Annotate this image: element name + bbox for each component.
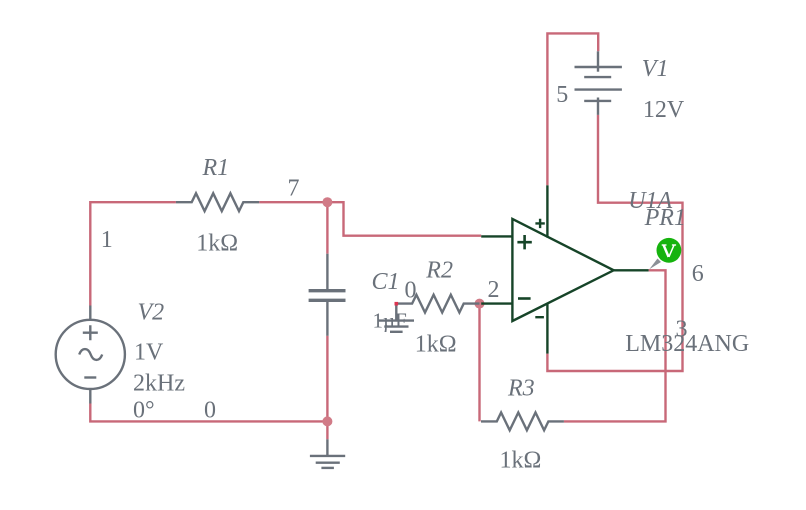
wire net 7 branch: node 7 down to C1 top	[326, 202, 328, 254]
junction node 2	[475, 299, 485, 309]
pin-end dot at R2 left	[395, 302, 399, 306]
svg-text:0: 0	[405, 278, 417, 304]
wire net 5: op-amp V+ pin to battery positive	[547, 33, 598, 185]
svg-text:C1: C1	[372, 269, 400, 295]
svg-text:V1: V1	[642, 56, 669, 82]
svg-text:2kHz: 2kHz	[133, 370, 185, 396]
svg-text:5: 5	[556, 82, 568, 108]
svg-text:1kΩ: 1kΩ	[500, 448, 542, 474]
resistor R1	[176, 193, 259, 211]
svg-text:PR1: PR1	[644, 205, 686, 231]
svg-text:6: 6	[692, 261, 704, 287]
svg-text:7: 7	[288, 176, 300, 202]
resistor R3	[481, 413, 564, 431]
svg-text:12V: 12V	[643, 97, 685, 123]
svg-text:R1: R1	[202, 155, 230, 181]
wire net 2: node 2 down to R3 left	[478, 304, 480, 422]
svg-text:1kΩ: 1kΩ	[196, 231, 238, 257]
ground (bottom, net 0)	[310, 439, 345, 468]
wire net 0: V2 bottom along bottom to ground junction	[90, 404, 327, 422]
wire net 1: V2 top to R1 left	[90, 202, 176, 305]
probe PR1 letter V	[662, 245, 676, 257]
wire net 0: C1 bottom down to ground junction	[326, 336, 328, 422]
svg-text:1: 1	[101, 227, 113, 253]
svg-text:V2: V2	[138, 300, 165, 326]
junction node 0 (bottom)	[322, 416, 332, 426]
svg-text:1µF: 1µF	[373, 309, 407, 333]
svg-text:0: 0	[204, 397, 216, 423]
resistor R2	[396, 295, 479, 313]
wire net 7: R1 right through node 7 to op-amp + input	[259, 202, 481, 236]
svg-text:1kΩ: 1kΩ	[415, 332, 457, 358]
svg-text:2: 2	[488, 277, 500, 303]
probe PR1 pointer	[649, 259, 661, 270]
junction node 7	[322, 197, 332, 207]
svg-text:R2: R2	[425, 258, 453, 284]
op-amp U1A	[481, 185, 648, 353]
wire net 3: op-amp V- pin to battery negative	[547, 115, 682, 371]
capacitor C1	[309, 254, 346, 336]
svg-text:1V: 1V	[134, 340, 164, 366]
AC source V2	[56, 306, 125, 404]
svg-text:R3: R3	[507, 375, 535, 401]
probe PR1	[657, 238, 682, 263]
ground (small, at R2 left / net 0)	[379, 304, 414, 332]
wire net 0: junction stub down to ground symbol	[326, 421, 328, 439]
wire net 6: R3 right up to op-amp output	[564, 270, 666, 421]
svg-text:LM324ANG: LM324ANG	[625, 331, 749, 357]
svg-text:0°: 0°	[133, 397, 155, 423]
battery V1	[575, 51, 622, 115]
